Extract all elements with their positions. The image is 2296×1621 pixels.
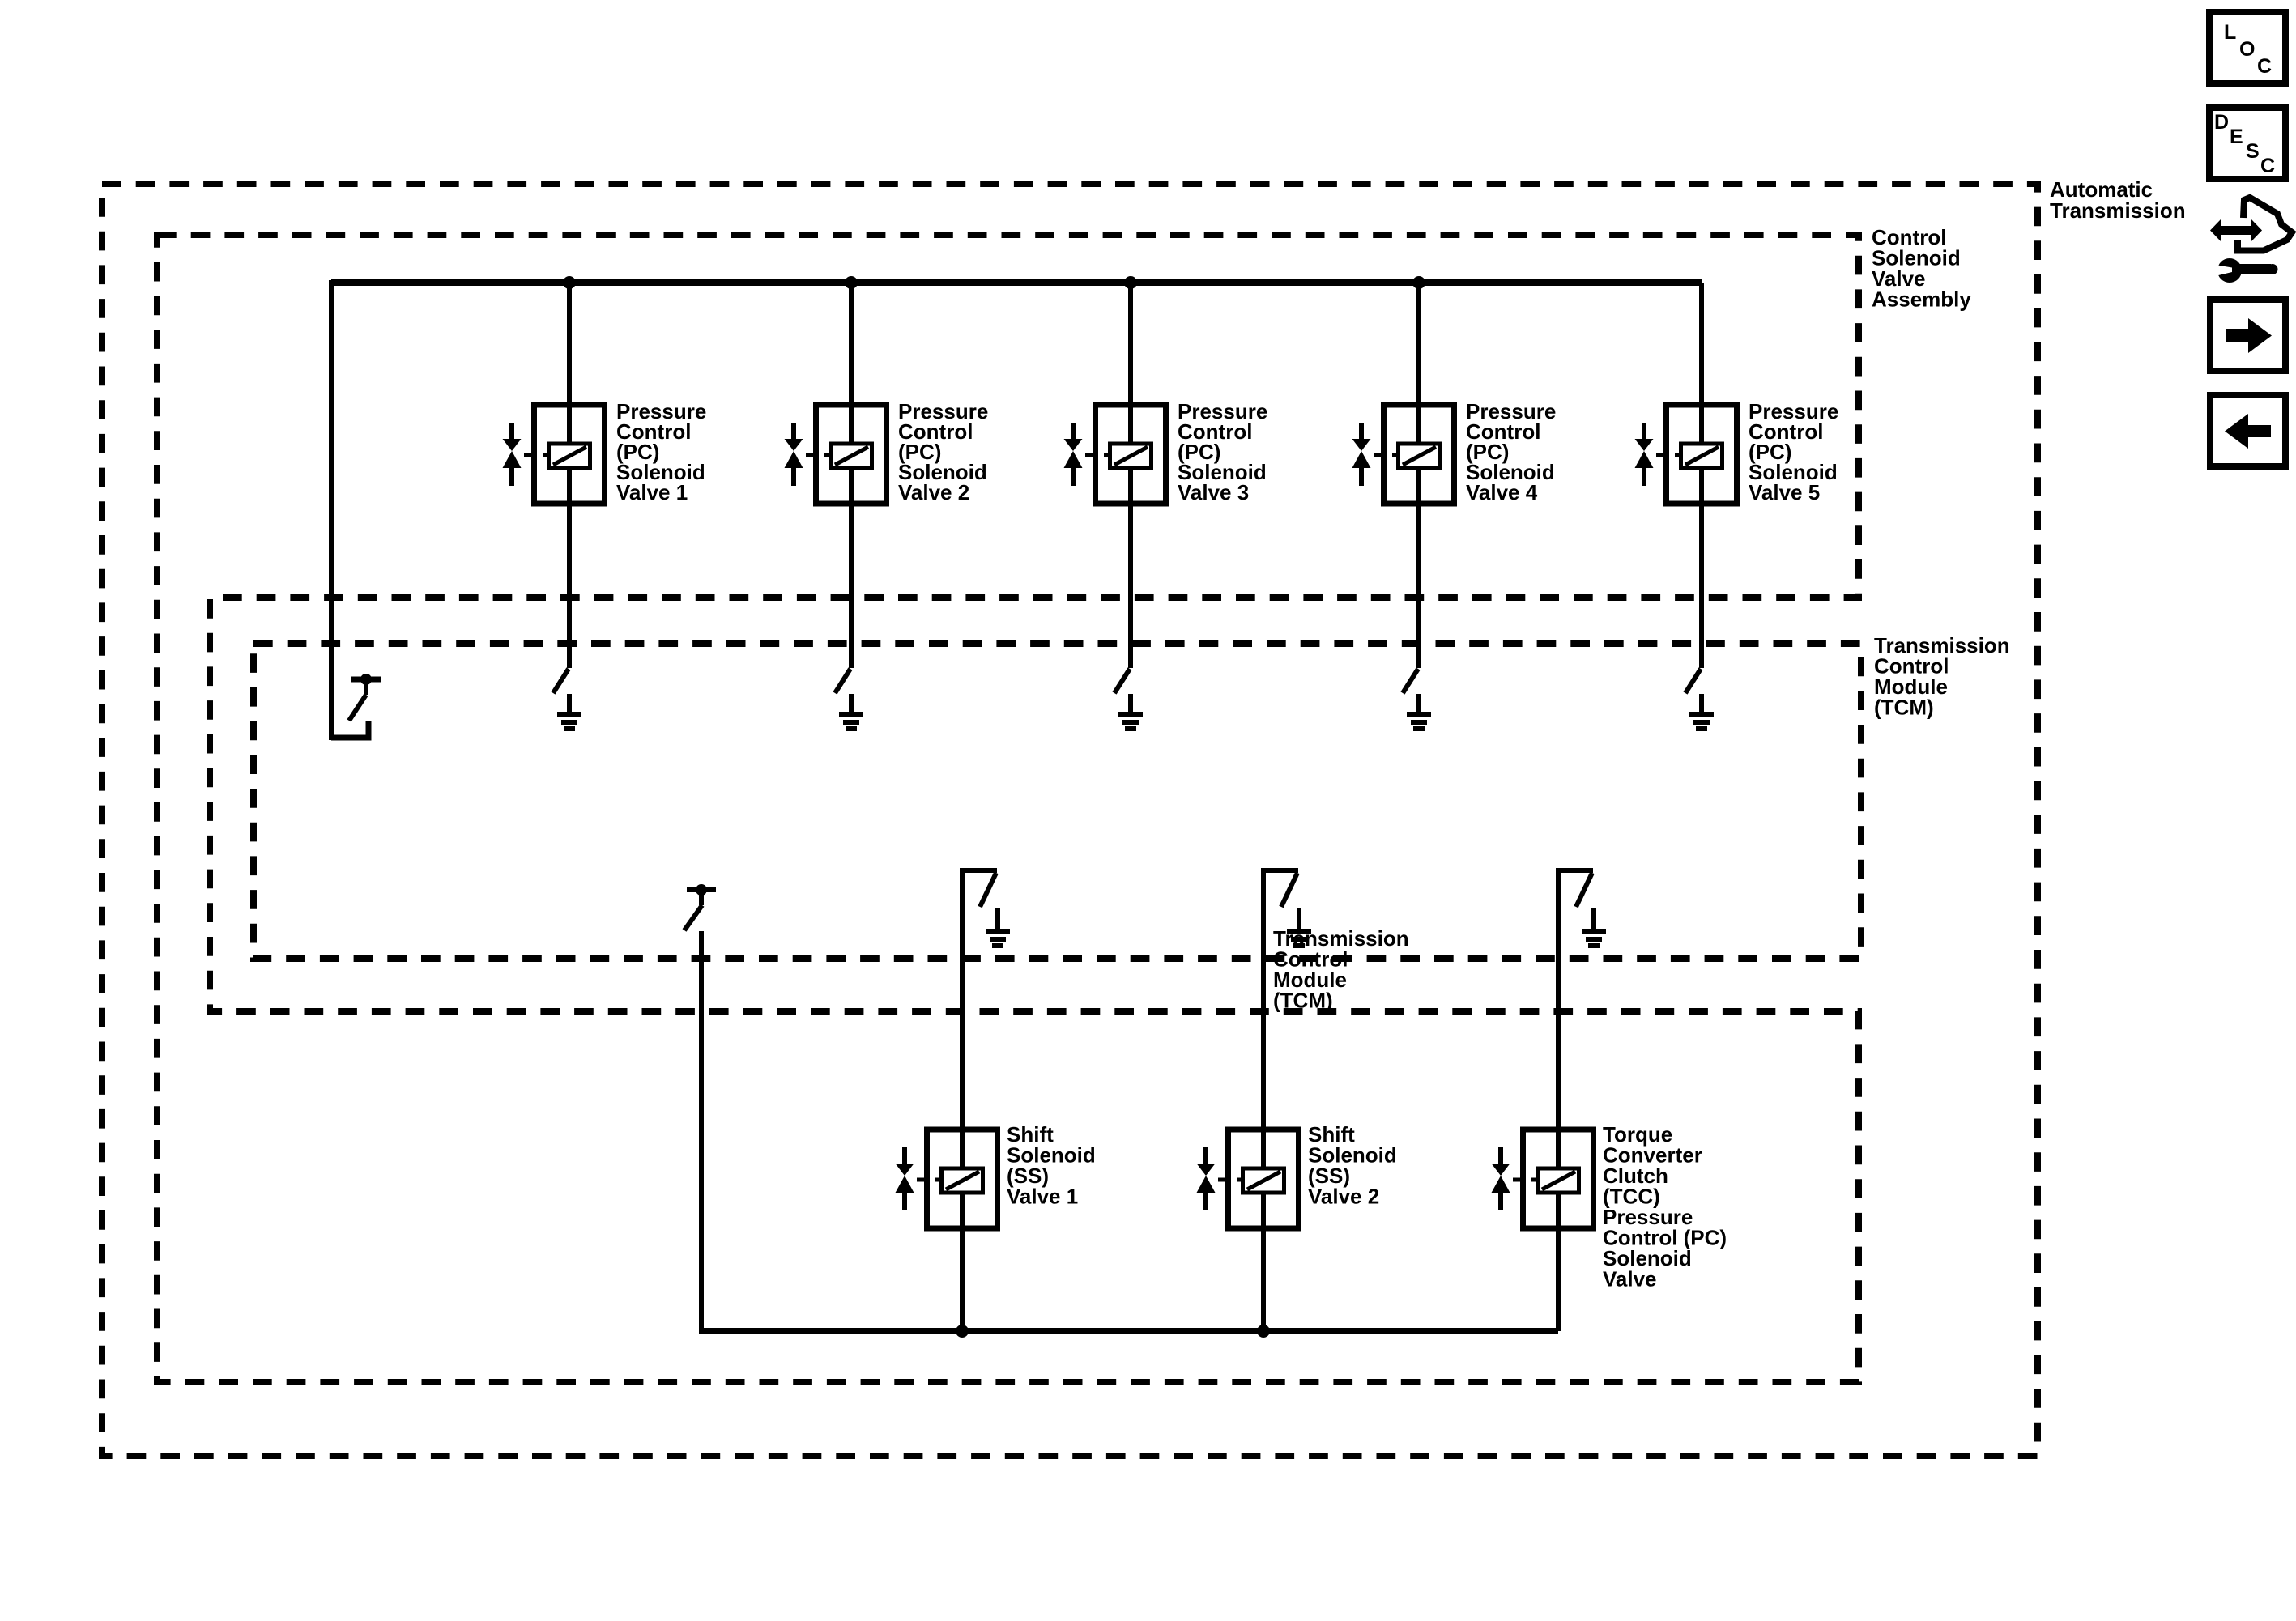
- TCM low-side driver switch 5: switch arm: [1685, 669, 1701, 693]
- TCM low-side driver switch 5: ground: [1699, 694, 1704, 715]
- switch: TCM driver (middle, T-bar): [687, 887, 716, 892]
- wire: PC solenoid valve 4 drop: [1416, 283, 1421, 668]
- TCM low-side driver switch 1: switch arm: [553, 669, 569, 693]
- PC solenoid valve 3: coil (rect with diagonal): [1110, 444, 1152, 468]
- svg-text:L: L: [2224, 21, 2236, 44]
- node: bus junction dot 4: [1412, 276, 1425, 289]
- PC solenoid valve 4: coil (rect with diagonal): [1399, 444, 1440, 468]
- svg-text:Valve 1: Valve 1: [1007, 1185, 1078, 1209]
- svg-text:Valve 4: Valve 4: [1466, 480, 1538, 504]
- wire: middle driver 1 down to bottom bus: [699, 931, 704, 1334]
- svg-text:E: E: [2230, 126, 2243, 148]
- Control Solenoid Valve Assembly dashed boundary (with TCM notch): [157, 235, 1859, 1382]
- PC solenoid valve 1: coil (rect with diagonal): [549, 444, 590, 468]
- label: Automatic Transmission: [2050, 177, 2186, 223]
- Shift Solenoid (SS) Valve 2: left lead ticks: [1218, 1178, 1228, 1182]
- svg-text:C: C: [2257, 55, 2272, 78]
- svg-text:Valve 5: Valve 5: [1749, 480, 1820, 504]
- label: Pressure Control (PC) Solenoid Valve 4: [1466, 399, 1556, 504]
- icon: LOC box: [2209, 12, 2285, 83]
- label: Control Solenoid Valve Assembly: [1872, 225, 1971, 312]
- svg-text:Valve 1: Valve 1: [616, 480, 688, 504]
- TCM driver switch (bottom row) 2: switch hook and arm: [1261, 868, 1298, 873]
- wire: bottom solenoid 2 riser: [1261, 870, 1266, 1331]
- PC solenoid valve 1: left lead ticks: [524, 453, 534, 457]
- Automatic Transmission outer dashed boundary: [102, 184, 2038, 1456]
- PC solenoid valve 4: outer box: [1384, 405, 1455, 504]
- PC solenoid valve 2: outer box: [816, 405, 887, 504]
- svg-text:C: C: [2260, 155, 2275, 177]
- PC solenoid valve 1: valve pilot arrows: [509, 423, 514, 440]
- Shift Solenoid (SS) Valve 1: coil (rect with diagonal): [942, 1168, 983, 1193]
- Shift Solenoid (SS) Valve 2: valve pilot arrows: [1203, 1147, 1208, 1164]
- icon: double-headed arrow: [2210, 219, 2262, 241]
- label: Pressure Control (PC) Solenoid Valve 3: [1178, 399, 1267, 504]
- Shift Solenoid (SS) Valve 2: coil (rect with diagonal): [1243, 1168, 1284, 1193]
- wire: bus left leg down to switch: [329, 280, 334, 740]
- node: driver dot: [360, 674, 372, 685]
- wire: top supply bus: [331, 279, 1702, 286]
- Shift Solenoid (SS) Valve 1: left lead ticks: [917, 1178, 926, 1182]
- TCM low-side driver switch 2: switch arm: [835, 669, 850, 693]
- PC solenoid valve 5: valve pilot arrows: [1642, 423, 1646, 440]
- node: bottom bus junction dots: [956, 1325, 969, 1338]
- PC solenoid valve 3: left lead ticks: [1085, 453, 1095, 457]
- PC solenoid valve 5: outer box: [1667, 405, 1737, 504]
- PC solenoid valve 5: left lead ticks: [1656, 453, 1666, 457]
- TCM low-side driver switch 3: ground: [1128, 694, 1133, 715]
- switch: TCM high-side driver (left) T-bar: [351, 677, 381, 683]
- PC solenoid valve 2: left lead ticks: [806, 453, 816, 457]
- wire: PC solenoid valve 5 drop: [1699, 283, 1704, 668]
- wire: bottom solenoid 3 riser: [1556, 870, 1561, 1331]
- TCM low-side driver switch 4: ground: [1416, 694, 1421, 715]
- wire: PC solenoid valve 3 drop: [1128, 283, 1133, 668]
- svg-text:S: S: [2246, 140, 2260, 163]
- svg-text:Valve 2: Valve 2: [898, 480, 969, 504]
- Shift Solenoid (SS) Valve 1: outer box: [927, 1130, 998, 1228]
- label: Transmission Control Module (TCM) right: [1874, 633, 2010, 720]
- PC solenoid valve 2: coil (rect with diagonal): [831, 444, 872, 468]
- label: Torque Converter Clutch (TCC) PC Solenoid Valve: [1603, 1122, 1727, 1291]
- wire: bracket at bottom of left leg: [331, 721, 368, 738]
- PC solenoid valve 4: valve pilot arrows: [1359, 423, 1364, 440]
- label: Pressure Control (PC) Solenoid Valve 2: [898, 399, 988, 504]
- svg-text:O: O: [2239, 38, 2255, 61]
- icon: DESC box: [2209, 108, 2285, 179]
- PC solenoid valve 1: outer box: [535, 405, 605, 504]
- Torque Converter Clutch (TCC) PC Solenoid Valve: left lead ticks: [1513, 1178, 1523, 1182]
- PC solenoid valve 5: coil (rect with diagonal): [1681, 444, 1723, 468]
- svg-text:Valve 3: Valve 3: [1178, 480, 1249, 504]
- switch: driver stem and arm: [364, 681, 368, 695]
- Torque Converter Clutch (TCC) PC Solenoid Valve: outer box: [1523, 1130, 1594, 1228]
- label: Pressure Control (PC) Solenoid Valve 5: [1749, 399, 1838, 504]
- TCM low-side driver switch 4: switch arm: [1403, 669, 1418, 693]
- svg-text:(TCM): (TCM): [1273, 989, 1333, 1013]
- TCM driver switch (bottom row) 3: switch hook and arm: [1556, 868, 1593, 873]
- TCM driver switch (bottom row) 3: ground: [1591, 908, 1596, 931]
- TCM low-side driver switch 2: ground: [849, 694, 854, 715]
- icon: arrow-right box: [2210, 300, 2285, 371]
- Torque Converter Clutch (TCC) PC Solenoid Valve: coil (rect with diagonal): [1538, 1168, 1579, 1193]
- PC solenoid valve 3: valve pilot arrows: [1071, 423, 1076, 440]
- TCM low-side driver switch 3: switch arm: [1114, 669, 1130, 693]
- icon: wrench: [2217, 258, 2242, 283]
- TCM driver switch (bottom row) 2: ground: [1297, 908, 1301, 931]
- svg-text:Transmission: Transmission: [2050, 198, 2186, 223]
- PC solenoid valve 4: left lead ticks: [1374, 453, 1383, 457]
- wire: bottom return bus: [699, 1328, 1558, 1334]
- TCM driver switch (bottom row) 1: ground: [995, 908, 1000, 931]
- PC solenoid valve 2: valve pilot arrows: [791, 423, 796, 440]
- TCM driver switch (bottom row) 1: switch hook and arm: [960, 868, 997, 873]
- svg-text:Valve: Valve: [1603, 1267, 1657, 1291]
- svg-text:Assembly: Assembly: [1872, 287, 1971, 312]
- svg-text:(TCM): (TCM): [1874, 696, 1934, 720]
- Transmission Control Module (TCM) dashed box: [253, 644, 1861, 959]
- label: Pressure Control (PC) Solenoid Valve 1: [616, 399, 706, 504]
- icon: arrow-left box: [2210, 395, 2285, 466]
- Shift Solenoid (SS) Valve 2: outer box: [1229, 1130, 1299, 1228]
- label: Transmission Control Module (TCM) middle: [1273, 926, 1409, 1013]
- PC solenoid valve 3: outer box: [1096, 405, 1166, 504]
- wire: PC solenoid valve 1 drop: [567, 283, 572, 668]
- Shift Solenoid (SS) Valve 1: valve pilot arrows: [902, 1147, 907, 1164]
- svg-text:D: D: [2214, 111, 2229, 134]
- label: Shift Solenoid (SS) Valve 2: [1308, 1122, 1397, 1209]
- TCM low-side driver switch 1: ground: [567, 694, 572, 715]
- Torque Converter Clutch (TCC) PC Solenoid Valve: valve pilot arrows: [1498, 1147, 1503, 1164]
- node: bus junction dot 1: [563, 276, 576, 289]
- wire: bottom solenoid 1 riser: [960, 870, 965, 1331]
- node: bus junction dot 2: [845, 276, 858, 289]
- label: Shift Solenoid (SS) Valve 1: [1007, 1122, 1096, 1209]
- svg-text:Valve 2: Valve 2: [1308, 1185, 1379, 1209]
- node: bus junction dot 3: [1124, 276, 1137, 289]
- icon: vehicle outline with wrench: [2238, 198, 2292, 251]
- wire: PC solenoid valve 2 drop: [849, 283, 854, 668]
